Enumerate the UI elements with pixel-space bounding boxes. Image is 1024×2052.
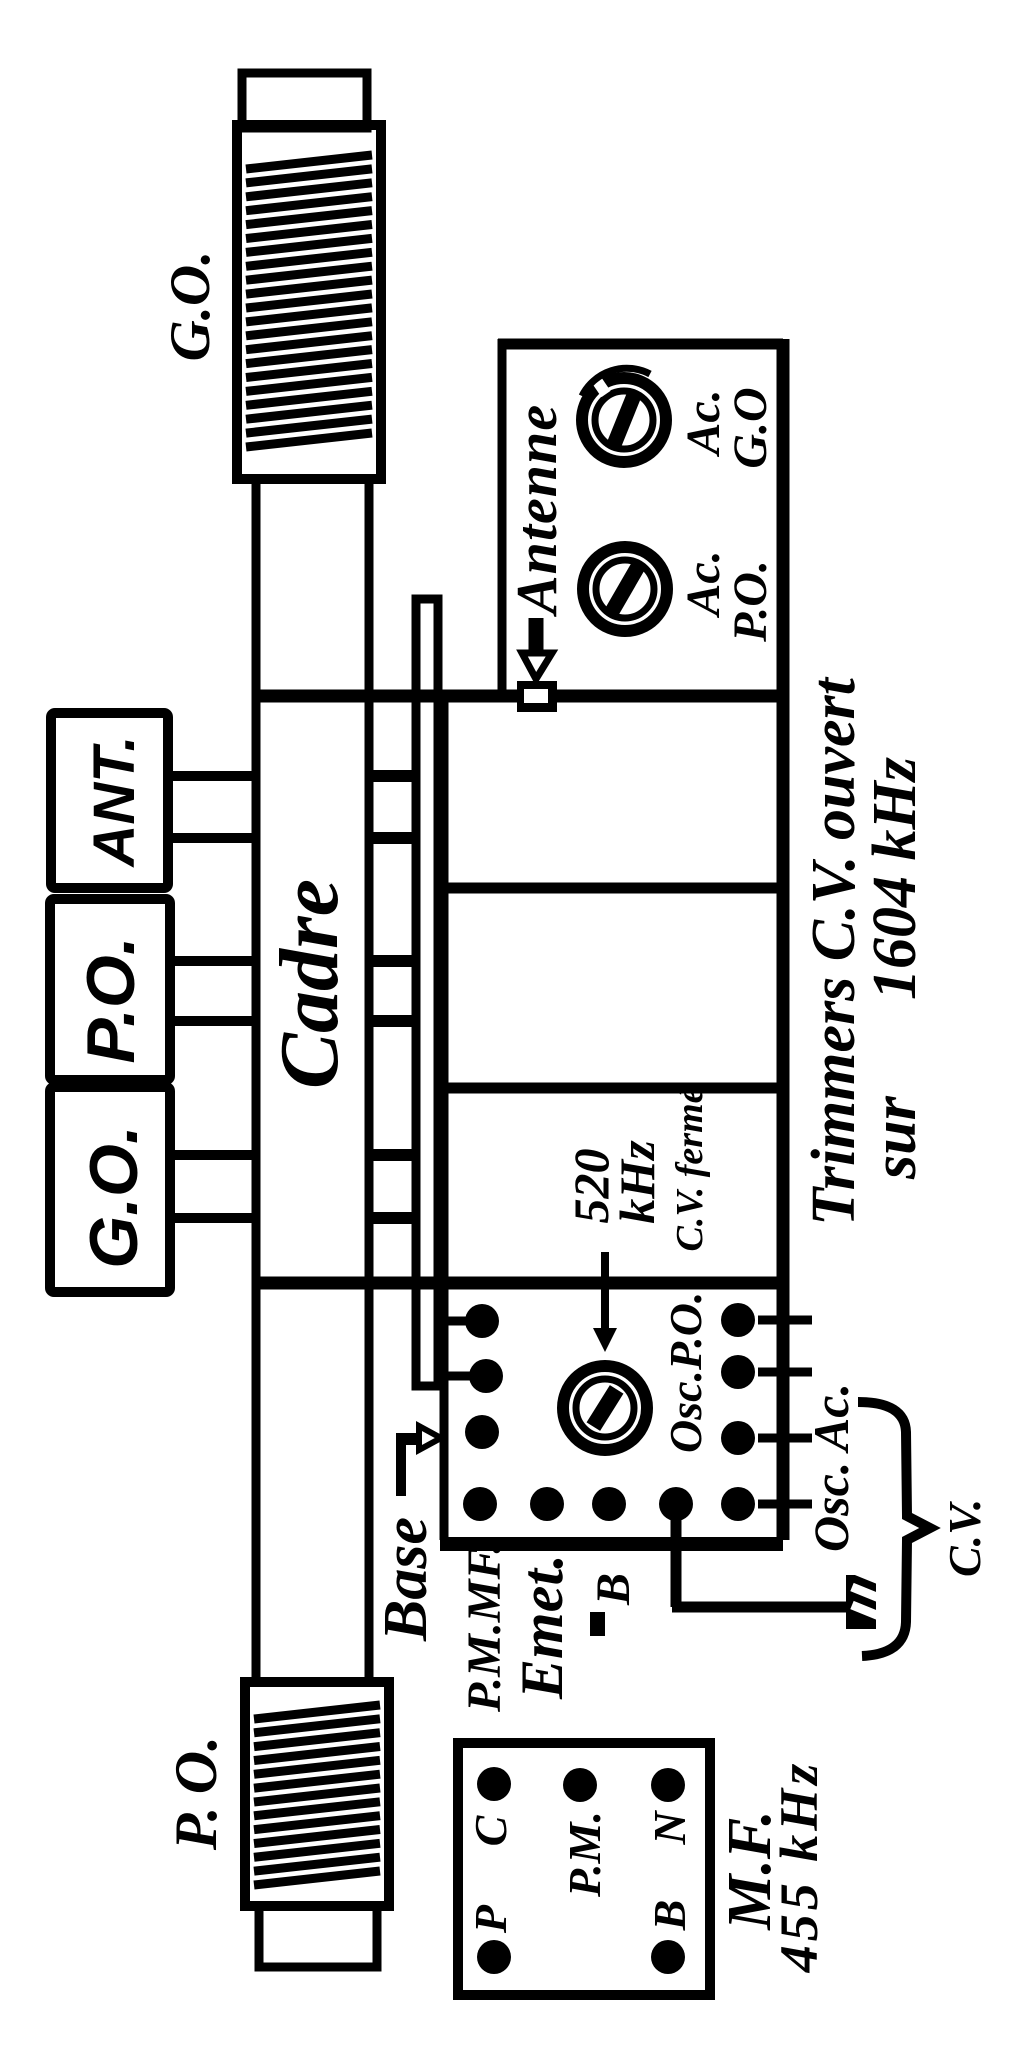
svg-text:Cadre: Cadre [263, 879, 356, 1089]
svg-text:Osc. Ac.: Osc. Ac. [803, 1383, 859, 1552]
svg-text:G.O: G.O [724, 387, 777, 468]
svg-text:P: P [465, 1904, 516, 1934]
svg-text:Ac.: Ac. [677, 550, 730, 618]
svg-text:C.V.: C.V. [939, 1499, 990, 1577]
svg-text:B: B [587, 1573, 640, 1606]
svg-text:ANT.: ANT. [82, 735, 147, 868]
svg-text:C.V. fermé: C.V. fermé [669, 1085, 711, 1251]
svg-text:Trimmers C.V. ouvert: Trimmers C.V. ouvert [800, 676, 868, 1226]
svg-text:1604 kHz: 1604 kHz [861, 757, 929, 1000]
svg-text:P.M.: P.M. [559, 1811, 610, 1898]
svg-text:Osc.P.O.: Osc.P.O. [660, 1292, 711, 1453]
svg-text:G.O.: G.O. [159, 251, 222, 362]
svg-text:455 kHz: 455 kHz [769, 1760, 829, 1974]
svg-text:Base: Base [372, 1517, 440, 1642]
svg-text:N: N [644, 1810, 695, 1846]
svg-text:Antenne: Antenne [504, 404, 569, 617]
svg-text:P.M.MF.: P.M.MF. [458, 1542, 511, 1713]
svg-text:Emet.: Emet. [509, 1554, 575, 1700]
svg-text:P.O.: P.O. [73, 936, 149, 1063]
svg-text:kHz: kHz [609, 1140, 665, 1224]
svg-text:Ac.: Ac. [677, 389, 730, 457]
svg-text:G.O.: G.O. [76, 1125, 152, 1269]
svg-text:B: B [644, 1900, 695, 1932]
svg-text:P.O.: P.O. [724, 560, 777, 643]
svg-text:P. O.: P. O. [163, 1736, 229, 1851]
svg-text:sur: sur [861, 1095, 929, 1180]
svg-text:C: C [465, 1814, 516, 1846]
